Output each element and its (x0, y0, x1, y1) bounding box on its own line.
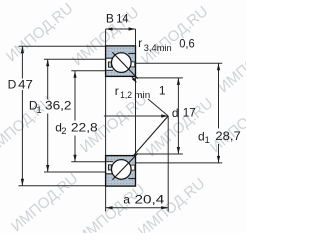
dimension a: line with outward arrows y=207.7 (106, 207, 169, 209)
svg-text:1: 1 (36, 105, 41, 116)
raceway groove white, left (106, 59, 112, 70)
ball bottom (112, 160, 132, 180)
pressure centre line with right arrow, y=116 (104, 115, 168, 117)
band top edge left (106, 173, 113, 175)
svg-text:D: D (8, 78, 17, 92)
contact line through ball (112, 153, 137, 179)
dimension d2 vertical line x=75 (74, 71, 76, 121)
wire: d2 bottom extension line (71, 161, 105, 163)
wire: a right extension from pressure point down (167, 116, 169, 212)
svg-text:min: min (134, 90, 150, 101)
contact line through ball (112, 52, 137, 78)
bearing ring body top (106, 46, 136, 77)
svg-text:3,4min: 3,4min (144, 43, 172, 54)
svg-text:22,8: 22,8 (71, 120, 98, 134)
wire: D bottom extension line (19, 185, 106, 187)
svg-text:47: 47 (18, 78, 33, 92)
wire: d1 top extension line (136, 62, 223, 64)
inner band top edge left (106, 69, 113, 71)
dimension B: line with outward arrows (106, 28, 136, 30)
ball top (112, 53, 132, 73)
band top edge right (128, 178, 135, 180)
svg-text:0,6: 0,6 (179, 37, 195, 51)
svg-text:1,2: 1,2 (120, 90, 132, 101)
wire: d2 top extension line (71, 70, 105, 72)
svg-text:28,7: 28,7 (215, 129, 241, 143)
svg-text:14: 14 (116, 12, 128, 26)
raceway groove white, right (130, 165, 135, 170)
svg-text:d: d (172, 106, 179, 120)
wire: D top extension line (19, 45, 106, 47)
svg-text:1: 1 (205, 135, 210, 146)
leader from r 1,2 min label down to pressure point (148, 99, 168, 116)
wire: bearing right face extension line x=135.5 (135, 29, 137, 186)
dimension d vertical line x=178.4 (177, 78, 179, 154)
contact angle line, top bearing (through ball, arrow at lower end) (112, 52, 136, 82)
svg-text:1: 1 (159, 83, 166, 97)
wire: d1 bottom extension line (136, 162, 223, 164)
dimension d1 vertical line x=218.5 (218, 63, 220, 128)
band bottom edge left (106, 57, 113, 59)
wire: D1 top extension line (44, 58, 106, 60)
svg-text:20,4: 20,4 (135, 193, 165, 207)
contact angle line, bottom bearing (long, to pressure point) (112, 116, 168, 180)
svg-text:B: B (106, 12, 114, 26)
svg-text:r: r (138, 36, 142, 50)
raceway groove white, left (106, 162, 112, 173)
wire: d bore top extension line (136, 77, 183, 79)
svg-text:17: 17 (183, 106, 196, 120)
wire: D1 bottom extension line (44, 171, 106, 173)
svg-text:2: 2 (61, 126, 66, 137)
wire: d bore bottom extension line (136, 153, 183, 155)
svg-text:36,2: 36,2 (45, 99, 72, 113)
wire: bearing left face extension line x=105.6 (105, 29, 107, 212)
svg-text:a: a (123, 192, 130, 206)
inner shoulder box left (108, 62, 111, 67)
band bottom edge right (128, 52, 135, 54)
dimension D1 vertical line x=47.7 (47, 59, 49, 99)
bearing ring body bottom (106, 156, 136, 187)
inner band bottom edge left (mirror) (106, 161, 113, 163)
inner shoulder box left (108, 165, 111, 170)
svg-text:r: r (115, 84, 119, 98)
dimension D vertical line x=22.4 (21, 46, 23, 78)
raceway groove white, right (130, 62, 135, 67)
